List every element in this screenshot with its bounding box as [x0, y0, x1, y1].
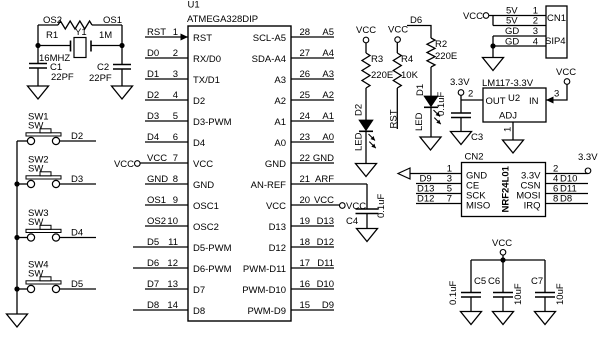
value C3 0.1uF — [436, 92, 447, 116]
node A5 pin28 — [322, 27, 334, 38]
power 3.3V circle U2 — [458, 90, 464, 96]
pin number U2 3 — [554, 89, 559, 100]
node D3 — [71, 174, 83, 185]
svg-text:A0: A0 — [274, 138, 286, 149]
svg-text:RST: RST — [389, 109, 400, 128]
svg-text:OSC2: OSC2 — [193, 222, 219, 233]
svg-text:GND: GND — [265, 159, 286, 170]
pin number 17 — [300, 258, 311, 269]
wire U1 pin 1 — [145, 34, 188, 41]
pin number 11 — [168, 237, 178, 248]
svg-text:C4: C4 — [346, 216, 358, 227]
node VCC U2 in — [556, 67, 576, 78]
U1 pin name A2 — [274, 96, 286, 107]
pin number 9 — [173, 195, 178, 206]
value C2 label — [97, 62, 109, 73]
value R3 220E — [371, 70, 393, 81]
svg-text:20: 20 — [300, 195, 311, 206]
wire R4 to RST net — [396, 88, 398, 129]
node D8 CN2 — [560, 194, 572, 205]
svg-text:22: 22 — [300, 153, 311, 164]
node RST pin1 — [147, 27, 166, 38]
svg-text:R2: R2 — [435, 39, 447, 50]
wire U1 pin 6 — [145, 141, 188, 143]
svg-text:MISO: MISO — [466, 201, 490, 212]
svg-text:IN: IN — [529, 96, 539, 107]
svg-text:D2: D2 — [193, 96, 205, 107]
svg-text:16: 16 — [300, 279, 311, 290]
wire R3 to LED D2 — [365, 88, 367, 120]
pin number 12 — [167, 258, 178, 269]
svg-text:AN-REF: AN-REF — [251, 180, 287, 191]
U1 pin name OSC1 — [193, 201, 219, 212]
svg-text:19: 19 — [300, 216, 311, 227]
svg-text:D13: D13 — [317, 216, 334, 227]
ground C5 — [461, 312, 482, 325]
svg-text:OS1: OS1 — [147, 195, 166, 206]
crystal Y1 — [71, 38, 92, 58]
node D8 pin14 — [147, 300, 159, 311]
pin number CN2 7 — [447, 194, 452, 205]
pin number 5 — [173, 111, 178, 122]
junction decoupling bus — [500, 257, 505, 262]
svg-text:GD: GD — [505, 26, 519, 37]
node D2 pin4 — [147, 90, 159, 101]
pin number 24 — [300, 111, 311, 122]
svg-text:ATMEGA328DIP: ATMEGA328DIP — [187, 14, 258, 25]
svg-text:VCC: VCC — [356, 25, 376, 36]
wire U1 pin 16 — [291, 288, 334, 290]
value R3 label — [371, 54, 383, 65]
junction crystal right — [119, 43, 124, 48]
svg-text:OS2: OS2 — [43, 15, 62, 26]
ground CN1 — [483, 58, 504, 71]
svg-text:A5: A5 — [322, 27, 334, 38]
svg-text:TX/D1: TX/D1 — [193, 75, 220, 86]
svg-text:7: 7 — [173, 153, 178, 164]
ground switch bus — [7, 314, 28, 327]
pin number 18 — [300, 237, 311, 248]
svg-text:Y1: Y1 — [75, 27, 87, 38]
node D6 pin12 — [147, 258, 159, 269]
node OS1 pin9 — [147, 195, 166, 206]
svg-text:A1: A1 — [322, 111, 334, 122]
svg-text:A3: A3 — [322, 69, 334, 80]
wire CN2 pin 1 — [410, 173, 462, 175]
value C7 label — [531, 276, 543, 287]
U1 pin name D7 — [193, 285, 205, 296]
value C5 label — [474, 276, 486, 287]
value C6 10uF — [513, 283, 524, 305]
svg-text:GD: GD — [505, 37, 519, 48]
value C2 22PF — [89, 73, 112, 84]
U1 pin name SDA-A4 — [252, 54, 286, 65]
svg-text:GND: GND — [147, 174, 168, 185]
wire U1 pin 10 — [145, 225, 188, 227]
svg-text:CN2: CN2 — [465, 152, 484, 163]
node OS2 — [43, 15, 62, 26]
wire SW4 left — [17, 288, 27, 290]
svg-text:24: 24 — [300, 111, 311, 122]
node RST label — [389, 109, 400, 128]
node VCC R4 — [388, 25, 408, 36]
wire U1 pin 8 — [145, 183, 188, 185]
wire AREF down to C4 — [366, 184, 368, 209]
svg-text:SDA-A4: SDA-A4 — [252, 54, 286, 65]
capacitor C7 — [535, 293, 555, 298]
wire U1 pin 26 — [291, 78, 334, 80]
svg-text:1: 1 — [173, 27, 178, 38]
wire CN1 pin 1 — [489, 15, 546, 17]
pin number 28 — [300, 27, 311, 38]
svg-text:NRF24L01: NRF24L01 — [501, 165, 512, 212]
U1 pin name TX/D1 — [193, 75, 220, 86]
switch SW3 — [26, 208, 61, 241]
svg-text:8: 8 — [173, 174, 178, 185]
LED D2 — [359, 120, 373, 131]
svg-text:LED: LED — [354, 132, 365, 151]
node 3.3V U2 out — [450, 77, 470, 88]
pin number CN1 3 — [533, 26, 538, 37]
svg-text:D5-PWM: D5-PWM — [193, 243, 232, 254]
svg-text:D5: D5 — [71, 279, 83, 290]
U1 pin name OSC2 — [193, 222, 219, 233]
svg-text:10: 10 — [167, 216, 178, 227]
pin number CN2 2 — [553, 164, 558, 175]
resistor R2 — [427, 38, 435, 67]
U1 pin name GND — [265, 159, 286, 170]
value C5 0.1uF — [448, 281, 459, 305]
wire U1 pin 21 AREF — [291, 183, 367, 185]
pin number CN2 4 — [553, 174, 558, 185]
svg-text:2: 2 — [468, 89, 473, 100]
node A3 pin26 — [322, 69, 334, 80]
node OS2 pin10 — [147, 216, 166, 227]
pin number U2 2 — [468, 89, 473, 100]
wire switch common bus — [16, 141, 18, 314]
svg-text:6: 6 — [173, 132, 178, 143]
svg-text:4: 4 — [533, 37, 538, 48]
wire crystal left vertical — [37, 25, 39, 64]
svg-text:C6: C6 — [488, 276, 500, 287]
wire SW2 left — [17, 183, 27, 185]
U1 pin name VCC — [266, 201, 286, 212]
wire crystal left horizontal — [38, 45, 71, 47]
CN1 label 5V pin1 — [506, 6, 518, 17]
pin number 8 — [173, 174, 178, 185]
svg-text:D3: D3 — [71, 174, 83, 185]
wire R2 to LED D1 — [430, 67, 432, 96]
ground C7 — [535, 312, 556, 325]
node D9 CN2 — [420, 174, 432, 185]
wire decoupling bus — [471, 259, 545, 261]
wire U1 pin 9 — [145, 204, 188, 206]
svg-text:2: 2 — [173, 48, 178, 59]
node D5 — [71, 279, 83, 290]
svg-text:PWM-D9: PWM-D9 — [247, 306, 286, 317]
wire C6 top — [502, 260, 504, 293]
node D13 pin19 — [317, 216, 334, 227]
svg-text:D7: D7 — [147, 279, 159, 290]
pin number CN2 5 — [447, 184, 452, 195]
node D10 CN2 — [560, 174, 577, 185]
U1 pin name SCL-A5 — [253, 33, 286, 44]
pin number 20 — [300, 195, 311, 206]
svg-text:21: 21 — [300, 174, 311, 185]
svg-text:D8: D8 — [193, 306, 205, 317]
svg-text:13: 13 — [167, 279, 178, 290]
value C7 10uF — [555, 283, 566, 305]
node 3.3V CN2 — [578, 152, 598, 163]
node VCC CN1 — [463, 11, 483, 22]
svg-text:D2: D2 — [354, 104, 365, 116]
pin number CN2 8 — [553, 194, 558, 205]
wire C2 to ground — [121, 69, 123, 86]
pin number CN2 1 — [447, 164, 452, 175]
svg-text:SIP4: SIP4 — [545, 36, 566, 47]
wire CN2 pin 7 — [416, 203, 462, 205]
value C1 label — [50, 62, 62, 73]
svg-text:22PF: 22PF — [51, 72, 74, 83]
wire U1 pin 15 — [291, 309, 334, 311]
U1 pin name D2 — [193, 96, 205, 107]
capacitor C1 — [29, 64, 47, 69]
node OS1 — [103, 15, 122, 26]
wire U2 OUT — [461, 95, 483, 100]
wire crystal right horizontal — [91, 45, 122, 47]
node D1 label — [415, 84, 426, 96]
wire U1 pin 19 — [291, 225, 334, 227]
power VCC circle decoupling — [500, 250, 506, 256]
ground LED D2 — [356, 164, 377, 177]
junction CN1 pin4 — [490, 43, 495, 48]
value LED label D1 — [414, 112, 425, 131]
svg-text:A3: A3 — [274, 75, 286, 86]
resistor R1 — [58, 21, 92, 29]
U1 pin name D12 — [269, 243, 286, 254]
pin number 3 — [173, 69, 178, 80]
node D2 label — [354, 104, 365, 116]
svg-text:D1: D1 — [415, 84, 426, 96]
node VCC R3 — [356, 25, 376, 36]
pin number 15 — [300, 300, 311, 311]
pin number 25 — [300, 90, 311, 101]
value Y1 label — [75, 27, 87, 38]
svg-text:R4: R4 — [401, 54, 413, 65]
U1 pin name D5-PWM — [193, 243, 232, 254]
svg-text:15: 15 — [300, 300, 311, 311]
svg-text:D7: D7 — [193, 285, 205, 296]
svg-text:3: 3 — [554, 89, 559, 100]
power VCC circle R3 — [363, 37, 369, 43]
power VCC circle R4 — [395, 37, 401, 43]
svg-text:3: 3 — [533, 26, 538, 37]
value 1M — [99, 30, 112, 41]
wire C3 to ground — [460, 118, 462, 132]
svg-text:10K: 10K — [401, 70, 419, 81]
power VCC circle U2 — [564, 79, 570, 85]
wire C7 top — [544, 260, 546, 293]
value R2 label — [435, 39, 447, 50]
U1 pin name VCC — [193, 159, 213, 170]
wire U1 pin 27 — [291, 57, 334, 59]
svg-text:SW: SW — [28, 217, 43, 228]
svg-text:2: 2 — [533, 16, 538, 27]
wire U1 pin 4 — [145, 99, 188, 101]
node D3 pin5 — [147, 111, 159, 122]
switch SW4 — [26, 260, 61, 293]
capacitor C4 — [356, 209, 379, 214]
svg-text:VCC: VCC — [114, 159, 134, 170]
junction bus SW2 — [14, 181, 19, 186]
wire U1 pin 7 — [140, 162, 188, 164]
capacitor C6 — [493, 293, 513, 298]
pin number 13 — [167, 279, 178, 290]
pin number 14 — [167, 300, 178, 311]
wire U1 pin 3 — [145, 78, 188, 80]
svg-text:D8: D8 — [147, 300, 159, 311]
svg-text:RX/D0: RX/D0 — [193, 54, 221, 65]
value C6 label — [488, 276, 500, 287]
ground LED D1 — [420, 137, 441, 150]
svg-text:R1: R1 — [46, 30, 58, 41]
svg-text:28: 28 — [300, 27, 311, 38]
pin number 23 — [300, 132, 311, 143]
regulator U2 LM117-3.3V body — [482, 78, 546, 122]
switch SW1 — [26, 112, 61, 145]
node VCC decoupling — [492, 238, 512, 249]
wire CN2 pin 3 — [416, 183, 462, 185]
svg-text:23: 23 — [300, 132, 311, 143]
svg-text:D10: D10 — [317, 279, 334, 290]
svg-text:OS1: OS1 — [103, 15, 122, 26]
svg-text:9: 9 — [173, 195, 178, 206]
wire SW2 right to D3 — [60, 183, 96, 185]
node D6 — [410, 15, 422, 26]
svg-text:3: 3 — [173, 69, 178, 80]
svg-text:VCC: VCC — [556, 67, 576, 78]
wire CN1 pin3 to ground — [492, 36, 494, 58]
switch SW2 — [26, 155, 61, 188]
svg-text:D6-PWM: D6-PWM — [193, 264, 232, 275]
wire CN1 pin 3 — [493, 35, 546, 37]
wire CN2 pin 5 — [416, 193, 462, 195]
wire VCC to R2 horizontal — [407, 26, 431, 39]
capacitor C5 — [461, 293, 481, 298]
svg-text:C5: C5 — [474, 276, 486, 287]
svg-text:SW: SW — [28, 269, 43, 280]
wire U1 pin 12 — [133, 267, 188, 269]
ground C6 — [493, 312, 514, 325]
wire CN1 pin1 to pin2 — [492, 16, 494, 26]
svg-text:C3: C3 — [471, 132, 483, 143]
svg-text:ADJ: ADJ — [499, 111, 517, 122]
svg-text:5V: 5V — [506, 16, 518, 27]
ground C2 — [112, 86, 133, 99]
svg-text:10uF: 10uF — [555, 283, 566, 305]
svg-text:VCC: VCC — [492, 238, 512, 249]
svg-text:3.3V: 3.3V — [578, 152, 598, 163]
pin number CN1 1 — [533, 6, 538, 17]
svg-text:D5: D5 — [147, 237, 159, 248]
wire SW3 right to D4 — [60, 237, 96, 239]
U1 pin name A0 — [274, 138, 286, 149]
svg-text:SW: SW — [28, 164, 43, 175]
resistor R4 — [393, 53, 401, 88]
svg-text:220E: 220E — [435, 51, 457, 62]
svg-text:25: 25 — [300, 90, 311, 101]
CN1 label GD pin3 — [505, 26, 519, 37]
svg-text:VCC: VCC — [266, 201, 286, 212]
wire U2 ADJ — [512, 122, 514, 140]
pin number 16 — [300, 279, 311, 290]
LED D1 — [424, 96, 438, 107]
wire LED D2 to ground — [365, 132, 367, 164]
svg-text:11: 11 — [168, 237, 178, 248]
svg-text:22PF: 22PF — [89, 73, 112, 84]
svg-text:VCC: VCC — [463, 11, 483, 22]
svg-text:1: 1 — [503, 127, 514, 132]
connector CN2 NRF24L01 body — [462, 152, 546, 217]
node GND pin8 — [147, 174, 168, 185]
node D7 pin13 — [147, 279, 159, 290]
wire U1 pin 2 — [145, 57, 188, 59]
wire crystal right vertical — [121, 25, 123, 65]
ground C4 — [357, 229, 378, 242]
node A1 pin24 — [322, 111, 334, 122]
svg-text:RST: RST — [147, 27, 166, 38]
value R4 10K — [401, 70, 419, 81]
value C3 label — [471, 132, 483, 143]
U1 pin name PWM-D11 — [243, 264, 286, 275]
pin number CN2 6 — [553, 184, 558, 195]
svg-text:3.3V: 3.3V — [450, 77, 470, 88]
ground arrow CN2 pin1 — [398, 168, 410, 179]
U1 pin name PWM-D10 — [242, 285, 286, 296]
svg-text:1M: 1M — [99, 30, 112, 41]
wire C5 top — [470, 260, 472, 293]
svg-text:10uF: 10uF — [513, 283, 524, 305]
wire VCC to bus — [502, 255, 504, 260]
pin number 27 — [300, 48, 311, 59]
svg-text:D12: D12 — [317, 237, 334, 248]
svg-text:SW: SW — [28, 121, 43, 132]
svg-text:R3: R3 — [371, 54, 383, 65]
node D12 pin18 — [317, 237, 334, 248]
wire SW1 left — [17, 140, 27, 142]
node D0 pin2 — [147, 48, 159, 59]
wire SW3 left — [17, 237, 27, 239]
svg-text:OS2: OS2 — [147, 216, 166, 227]
wire CN2 pin 6 — [546, 193, 589, 195]
U1 pin name RX/D0 — [193, 54, 221, 65]
wire C7 to ground — [544, 297, 546, 312]
node D10 pin16 — [317, 279, 334, 290]
node D1 pin3 — [147, 69, 159, 80]
wire CN2 pin 2 — [546, 173, 589, 175]
node D12 CN2 — [417, 194, 434, 205]
value 16MHZ — [39, 53, 70, 64]
svg-text:D12: D12 — [417, 194, 434, 205]
pin number 22 — [300, 153, 311, 164]
ground U2 ADJ — [503, 140, 524, 153]
svg-text:220E: 220E — [371, 70, 393, 81]
node GND pin22 — [313, 153, 334, 164]
node D4 pin6 — [147, 132, 159, 143]
ground C3 — [451, 132, 472, 145]
U1 pin name D4 — [193, 138, 205, 149]
svg-text:8: 8 — [553, 194, 558, 205]
